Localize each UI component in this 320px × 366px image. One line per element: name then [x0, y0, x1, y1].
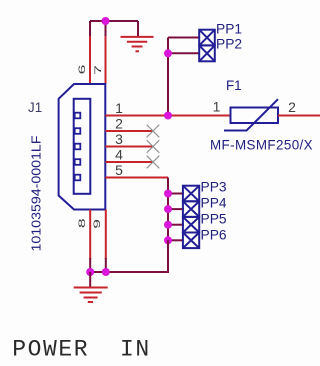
test pad PP3 symbol: [183, 186, 199, 202]
wire pin9 lower stub: [105, 258, 107, 272]
svg-text:8: 8: [76, 218, 87, 228]
svg-text:1: 1: [115, 100, 123, 116]
junction dot pin9/bus: [102, 268, 110, 276]
no-connect X pin2: [147, 125, 160, 138]
connector J1 contact square pin2: [75, 128, 81, 134]
wire stub to PP5: [168, 224, 184, 226]
fuse F1 body: [231, 108, 279, 124]
svg-text:PP3: PP3: [201, 180, 227, 195]
svg-text:PP2: PP2: [216, 37, 242, 52]
pin 7 of J1 (red pin): [105, 36, 107, 84]
wire pin6 stub upper (net colour): [89, 21, 91, 37]
fuse F1 strike-through: [224, 99, 278, 130]
wire pin7 stub upper (net colour): [105, 21, 107, 37]
wire top bus horizontal: [90, 20, 138, 22]
ground (top): [121, 37, 154, 51]
wire bottom bus: [90, 240, 168, 272]
svg-text:MF-MSMF250/X: MF-MSMF250/X: [210, 138, 313, 153]
svg-text:J1: J1: [28, 100, 42, 115]
wire stub to PP3: [168, 193, 184, 195]
junction dot at PP2 tap: [164, 49, 172, 57]
test pad PP1 symbol: [199, 30, 215, 46]
svg-text:PP4: PP4: [201, 196, 227, 211]
wire stub to PP1: [168, 37, 199, 39]
junction dot top bus: [102, 17, 110, 25]
connector J1 contact square pin3: [75, 144, 81, 150]
svg-text:1: 1: [213, 99, 221, 115]
junction dot PP6 tap: [164, 236, 172, 244]
pin 1 wire (red) to fuse: [105, 115, 230, 117]
pin 2 wire: [105, 130, 153, 132]
connector J1 contact square pin5: [75, 175, 81, 181]
wire vertical from PP1/PP2 to pin1 net: [167, 38, 169, 116]
pin 9 of J1 (red pin): [105, 210, 107, 260]
no-connect X pin3: [147, 140, 160, 153]
svg-text:4: 4: [115, 147, 123, 163]
junction dot pin1/PP vertical: [164, 112, 172, 120]
svg-text:6: 6: [76, 64, 87, 74]
ground (bottom): [74, 288, 108, 303]
junction dot PP4 tap: [164, 205, 172, 213]
svg-text:F1: F1: [226, 78, 242, 93]
svg-text:10103594-0001LF: 10103594-0001LF: [28, 135, 43, 251]
test pad PP6 symbol: [183, 233, 199, 249]
svg-text:2: 2: [115, 116, 123, 132]
wire ground stem: [89, 272, 91, 287]
test pad PP2 symbol: [199, 45, 215, 61]
pin 6 of J1 (red pin): [89, 36, 91, 84]
test pad PP4 symbol: [183, 201, 199, 217]
connector J1 inner rectangle: [74, 99, 91, 194]
svg-text:PP6: PP6: [201, 228, 227, 243]
junction dot pin8/ground: [86, 268, 94, 276]
wire stub to PP2: [168, 52, 199, 54]
pin 8 of J1 (red pin): [89, 210, 91, 260]
wire fuse output: [278, 115, 320, 117]
svg-text:PP5: PP5: [201, 212, 227, 227]
connector J1 contact square pin1: [75, 113, 81, 119]
pin 3 wire: [105, 146, 153, 148]
svg-text:3: 3: [115, 131, 123, 147]
connector J1 outline: [59, 84, 106, 210]
connector J1 contact square pin4: [75, 159, 81, 165]
svg-text:5: 5: [115, 162, 123, 178]
wire pin8 lower stub: [89, 258, 91, 272]
wire stub to PP6: [168, 239, 184, 241]
wire vertical pin5 net down to bottom bus: [167, 178, 169, 273]
test pad PP5 symbol: [183, 217, 199, 233]
junction dot PP5 tap: [164, 221, 172, 229]
wire stub to PP4: [168, 208, 184, 210]
svg-text:7: 7: [92, 65, 103, 75]
wire top bus down to ground: [137, 21, 139, 36]
svg-text:9: 9: [91, 219, 102, 229]
pin 5 wire: [105, 177, 168, 179]
svg-text:2: 2: [288, 99, 296, 115]
no-connect X pin4: [147, 156, 160, 169]
svg-text:PP1: PP1: [216, 22, 242, 37]
junction dot PP3 tap: [164, 190, 172, 198]
svg-text:POWER IN: POWER IN: [12, 337, 151, 363]
pin 4 wire: [105, 161, 153, 163]
